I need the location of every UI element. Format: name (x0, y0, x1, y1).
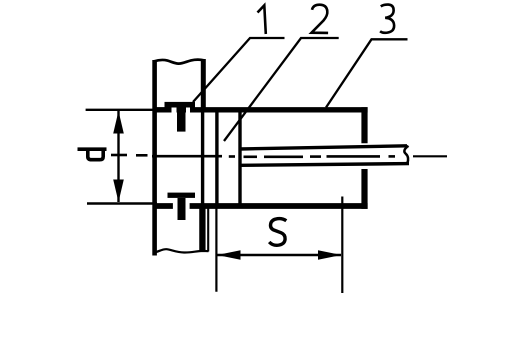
d dimension line (117, 111, 119, 202)
top screw head (165, 102, 196, 108)
center line dot (136, 154, 148, 157)
disc line 2 (item 2 right face) (238, 111, 241, 204)
center line long dash through wall (152, 155, 222, 158)
d extension line top (86, 109, 157, 111)
housing bottom line (item 3 bottom) (156, 203, 173, 209)
S extension line right (341, 197, 343, 294)
center line dot (229, 155, 235, 158)
d extension line bottom (87, 202, 157, 204)
d arrow down (113, 180, 124, 203)
center line dash (244, 156, 258, 159)
housing right edge upper (361, 107, 367, 143)
housing right edge lower (361, 169, 367, 209)
wall right edge lower bar (199, 204, 205, 251)
rod top line (240, 146, 407, 149)
wall bottom break line (154, 249, 209, 252)
center line end dash (413, 155, 447, 157)
wall left edge (152, 60, 157, 256)
d arrow up (113, 111, 124, 134)
callout 2 digit (312, 5, 329, 33)
rod bottom line (240, 164, 409, 166)
center line dash (327, 155, 381, 158)
label d (78, 149, 107, 160)
callout 3 digit (380, 5, 394, 33)
top screw stem (177, 107, 186, 132)
center line dot (389, 155, 396, 158)
S arrow left (217, 250, 240, 260)
wall right edge upper (201, 59, 206, 112)
center line dash (264, 156, 303, 159)
callout 1 digit (258, 5, 266, 34)
wall edge thin line lower right (207, 208, 209, 252)
callout 3 leader (326, 39, 408, 107)
center line dash (111, 154, 127, 157)
bottom screw head (168, 193, 196, 198)
S arrow right (318, 250, 341, 260)
rod end break (404, 146, 408, 164)
bottom screw stem (178, 198, 186, 220)
wall top break line (154, 60, 205, 64)
housing top line (item 3 top) (156, 107, 172, 112)
callout 2 leader (224, 38, 339, 141)
S extension line left (215, 206, 217, 292)
label S (269, 219, 286, 246)
wall right edge through housing (201, 110, 204, 204)
S dimension line (218, 254, 342, 256)
callout 1 leader (193, 38, 285, 102)
center line dot (310, 155, 321, 158)
disc line 1 (item 2 left face) (215, 111, 218, 204)
